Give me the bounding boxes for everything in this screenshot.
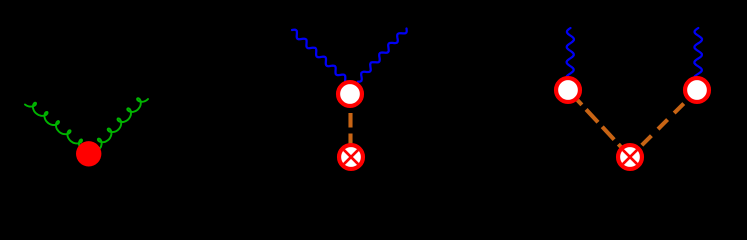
- photon wave 1 (upper-left, diagram 2): [292, 30, 345, 82]
- crossed circle vertex (diagram 2): [339, 145, 363, 169]
- photon wave 3 (vertical left, diagram 3): [567, 28, 574, 80]
- open circle vertex left (diagram 3): [556, 78, 580, 102]
- open circle vertex (diagram 2): [338, 82, 362, 106]
- dashed propagator left (diagram 3): [578, 100, 622, 147]
- vertex blob (red filled circle, diagram 1): [76, 141, 101, 166]
- gluon g2 (right curly gluon line, diagram 1): [98, 98, 148, 149]
- photon wave 4 (vertical right, diagram 3): [694, 28, 702, 80]
- dashed propagator right (diagram 3): [639, 100, 688, 149]
- crossed circle vertex (diagram 3): [618, 145, 642, 169]
- dashed propagator (vertical, diagram 2): [348, 113, 352, 145]
- photon wave 2 (upper-right, diagram 2): [358, 29, 407, 82]
- gluon g1 (left curly gluon line, diagram 1): [25, 103, 82, 151]
- open circle vertex right (diagram 3): [685, 78, 709, 102]
